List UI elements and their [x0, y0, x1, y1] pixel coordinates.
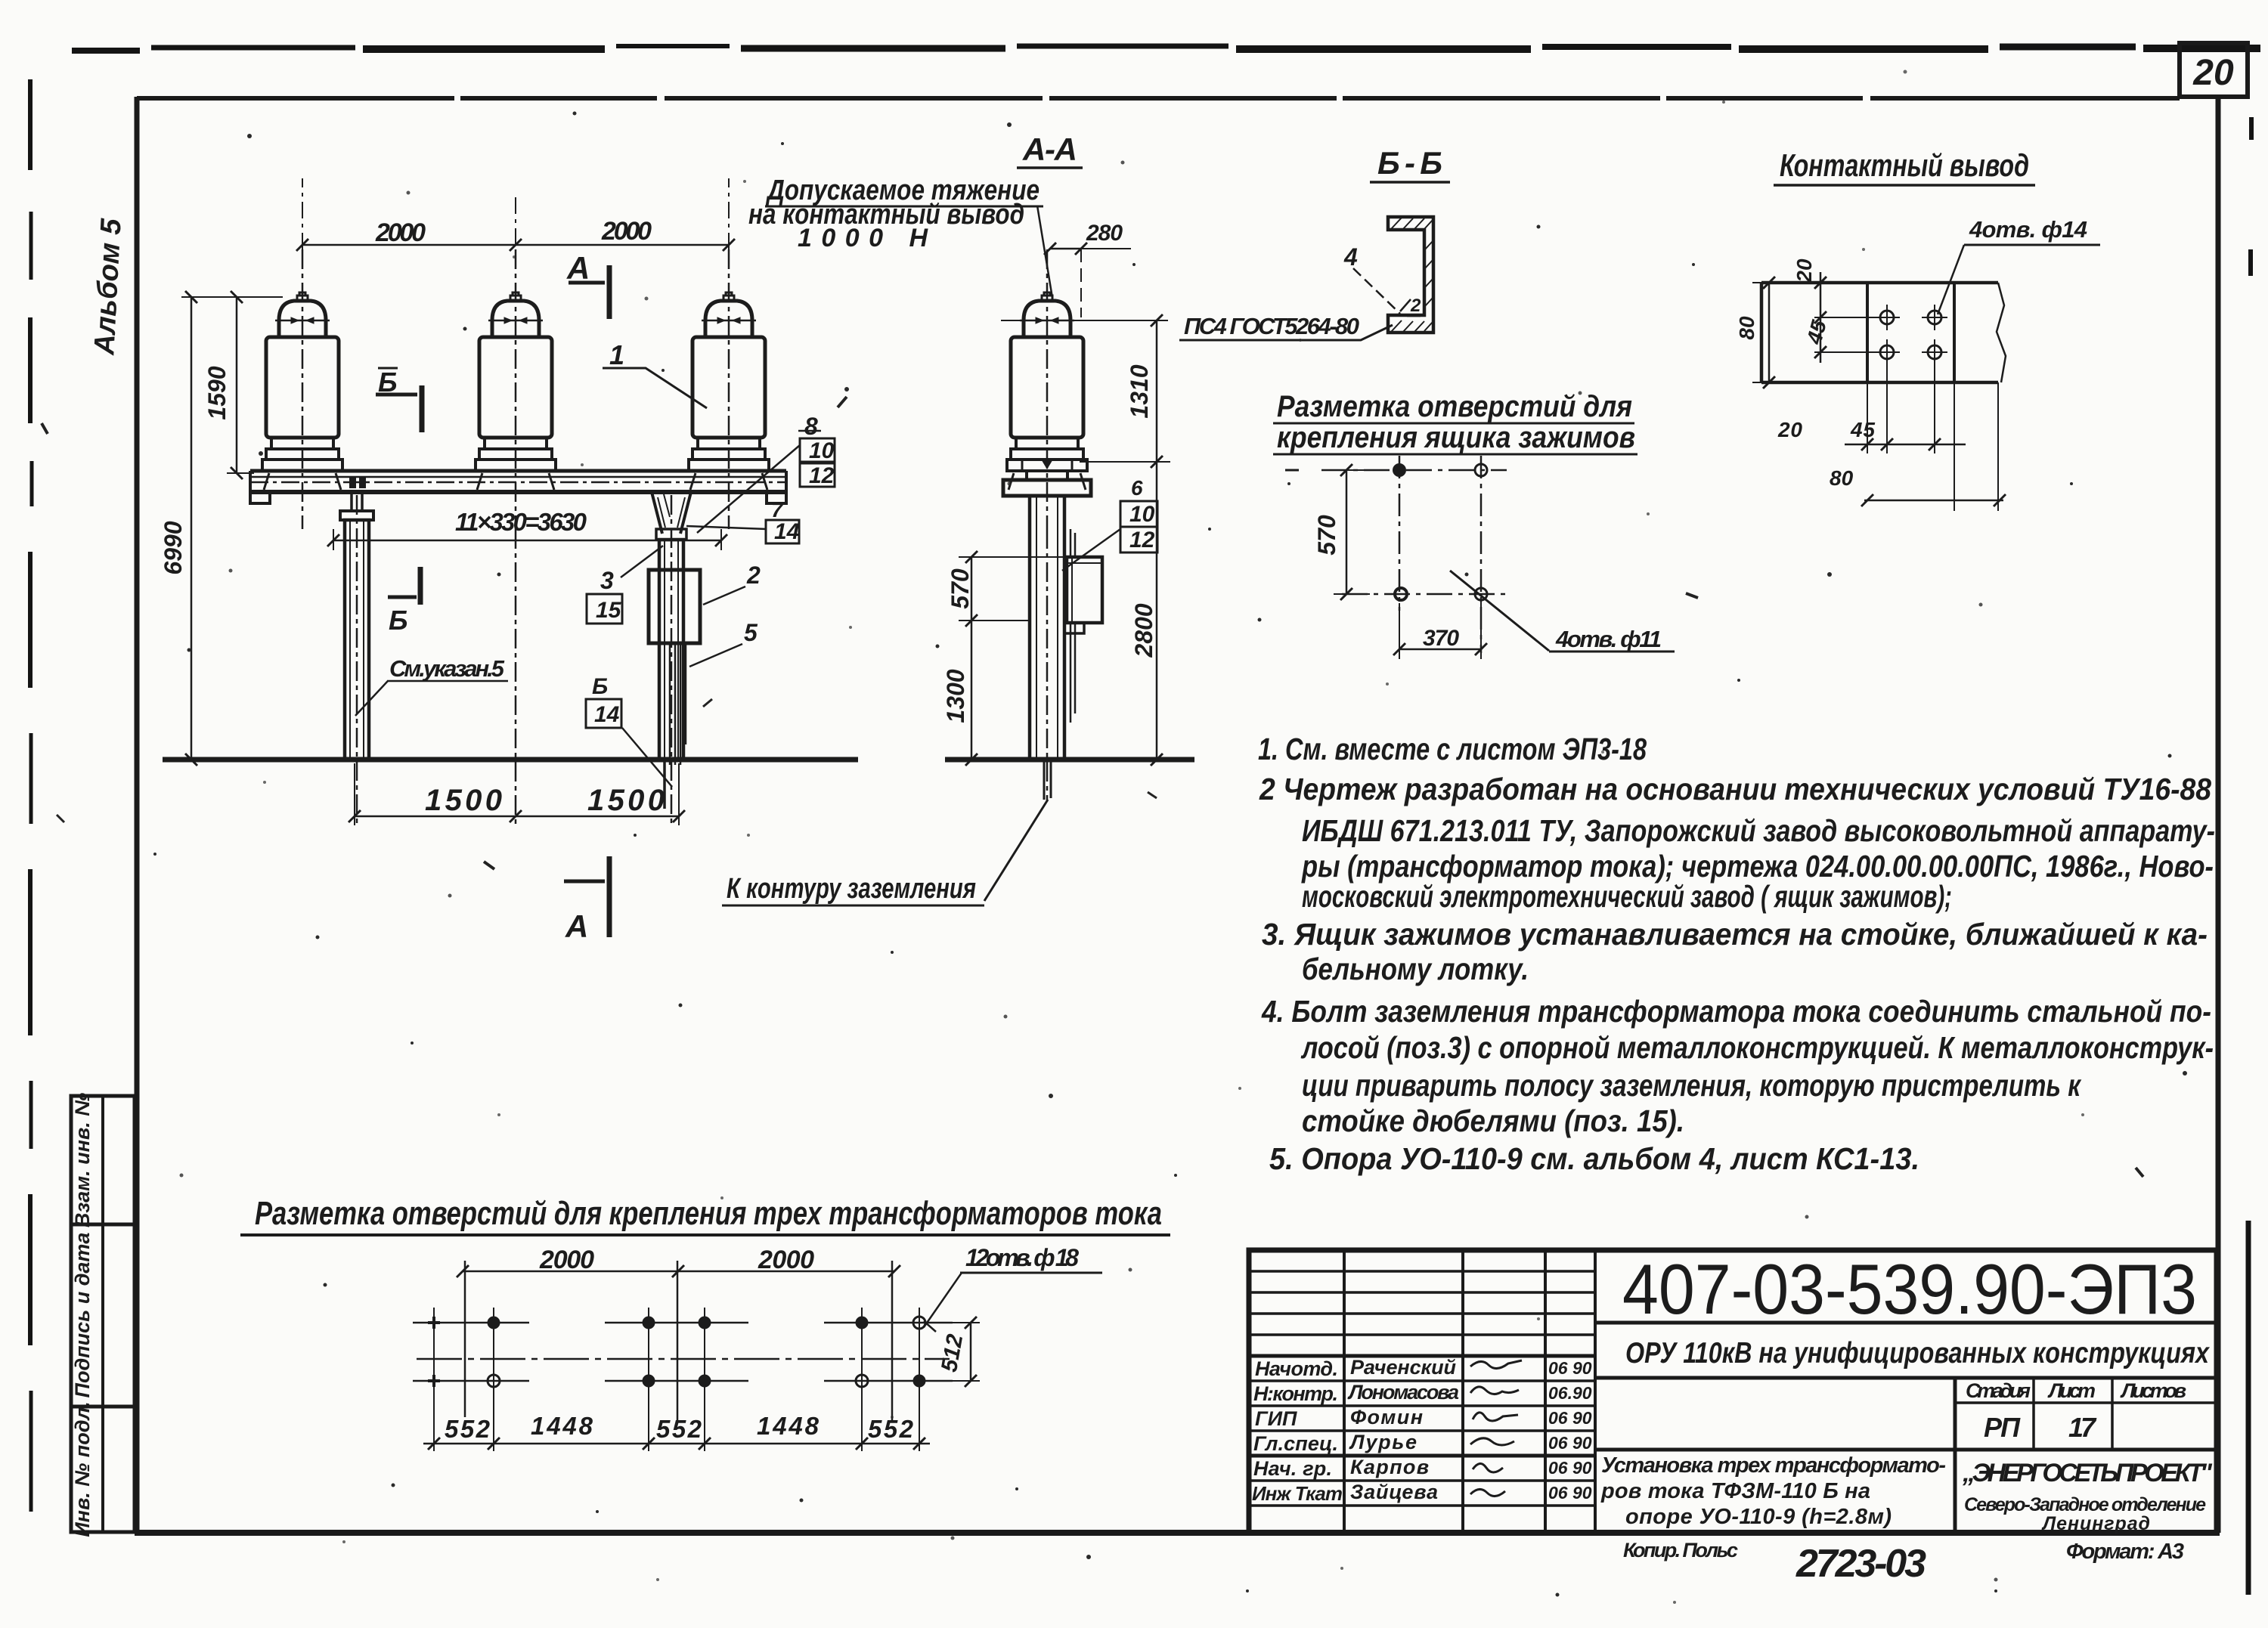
callout 5 leader — [689, 644, 742, 667]
axis verticals — [464, 1261, 466, 1417]
callout 6/10/12 boxes — [1120, 501, 1157, 527]
hole mark bottom left — [1395, 588, 1407, 600]
svg-text:1: 1 — [609, 339, 624, 370]
svg-text:бельному лотку.: бельному лотку. — [1302, 952, 1529, 986]
horizontal axis top — [1321, 469, 1507, 472]
hole row top centerline — [413, 1322, 953, 1324]
holes top row — [428, 1317, 440, 1329]
callout 7/14 leader — [686, 526, 767, 529]
svg-text:10: 10 — [1129, 502, 1155, 527]
bolt hole 2 — [1928, 311, 1941, 324]
current transformer side — [1007, 292, 1087, 490]
transformer side centerline — [1046, 249, 1049, 529]
hole mark bottom right — [1475, 588, 1487, 600]
transformer 3 centerline — [728, 249, 730, 529]
svg-text:московский электротехнический: московский электротехнический завод ( ящ… — [1302, 879, 1952, 914]
svg-text:552: 552 — [656, 1415, 702, 1443]
svg-text:опоре УО-110-9 (h=2.8м): опоре УО-110-9 (h=2.8м) — [1625, 1505, 1892, 1529]
channel profile section — [1388, 217, 1433, 333]
dim level line flange — [1080, 461, 1170, 463]
divider firm/theme — [1954, 1378, 1957, 1533]
svg-text:3: 3 — [600, 567, 614, 594]
svg-text:12: 12 — [809, 463, 835, 488]
dim 570/1300 vertical — [971, 557, 973, 760]
svg-text:2800: 2800 — [1130, 603, 1157, 658]
terminal box side — [1067, 557, 1102, 623]
svg-text:Разметка отверстий для креплен: Разметка отверстий для крепления трех тр… — [255, 1195, 1162, 1232]
support beam — [250, 469, 786, 473]
svg-text:80: 80 — [1830, 466, 1854, 490]
svg-text:ров тока ТФЗМ-110 Б на: ров тока ТФЗМ-110 Б на — [1600, 1479, 1870, 1503]
svg-text:Северо-Западное отделение: Северо-Западное отделение — [1964, 1494, 2206, 1515]
title block outer border — [1249, 1250, 2217, 1533]
svg-text:Копир. Польс: Копир. Польс — [1623, 1539, 1738, 1561]
dim 1500 1500 line — [355, 816, 679, 818]
svg-text:ции приварить полосу заз: ции приварить полосу заземления, которую… — [1302, 1068, 2082, 1103]
svg-text:570: 570 — [1313, 515, 1340, 556]
svg-text:14: 14 — [594, 702, 620, 727]
left sub-table name rows — [1249, 1354, 1595, 1358]
svg-text:А-А: А-А — [1022, 132, 1077, 167]
svg-text:Фомин: Фомин — [1350, 1406, 1423, 1428]
dim line 80 bottom — [1864, 500, 2003, 502]
horizontal centerline — [417, 1358, 950, 1360]
right post centerline — [671, 495, 673, 825]
transformer 2 centerline — [515, 249, 517, 529]
theme row bottom — [1595, 1376, 2217, 1380]
left post centerline — [356, 495, 358, 825]
svg-text:Зайцева: Зайцева — [1350, 1481, 1438, 1503]
signatures — [1470, 1360, 1522, 1369]
svg-text:7: 7 — [771, 498, 784, 522]
svg-text:2 Чертеж разработан на ос: 2 Чертеж разработан на основании техниче… — [1259, 772, 2211, 806]
svg-text:45: 45 — [1850, 418, 1875, 441]
weld label leader — [1179, 325, 1393, 340]
svg-text:Карпов: Карпов — [1350, 1456, 1429, 1478]
dim 20/45 vertical — [1820, 272, 1822, 363]
svg-text:10: 10 — [809, 438, 835, 463]
earthing rod below ground — [663, 760, 666, 809]
current transformer 1 — [262, 292, 342, 490]
svg-text:А: А — [566, 250, 590, 286]
bottom dim line — [423, 1443, 930, 1445]
svg-text:06 90: 06 90 — [1548, 1483, 1592, 1503]
vertical axis left — [1399, 456, 1401, 611]
hole mark top left — [1393, 464, 1405, 476]
hole columns ext lines — [434, 1308, 919, 1451]
left post — [345, 520, 369, 760]
svg-text:20: 20 — [1792, 258, 1816, 283]
vertical axis right — [1480, 456, 1483, 653]
svg-text:2000: 2000 — [539, 1246, 594, 1274]
section A marker top — [569, 281, 605, 285]
right post joint — [656, 529, 686, 540]
dim 570 vertical — [1346, 470, 1348, 594]
svg-text:06 90: 06 90 — [1548, 1458, 1592, 1478]
svg-text:20: 20 — [2192, 53, 2234, 93]
dim 2000+2000 line — [302, 244, 729, 246]
svg-text:Б: Б — [378, 367, 398, 398]
svg-text:570: 570 — [947, 568, 974, 609]
svg-text:20: 20 — [1777, 418, 1802, 441]
leader from tension note to dome — [1037, 206, 1052, 298]
svg-text:370: 370 — [1423, 626, 1459, 651]
see note 5 leader — [355, 681, 388, 716]
svg-text:5. Опора УО-110-9 см. альбо: 5. Опора УО-110-9 см. альбом 4, лист КС1… — [1269, 1141, 1919, 1176]
SIDE VIEW A-A — [945, 249, 1194, 901]
dim line 20 45 bottom — [1845, 444, 1966, 446]
left scan edge — [28, 79, 33, 170]
svg-text:Гл.спец.: Гл.спец. — [1253, 1432, 1338, 1455]
flange bolts — [1022, 460, 1072, 471]
svg-text:Контактный вывод: Контактный вывод — [1780, 147, 2029, 183]
hole mark top right — [1475, 464, 1487, 476]
dim 2000 2000 line — [463, 1271, 894, 1273]
left sub-table top rows — [1249, 1271, 1595, 1335]
svg-text:ИБДШ 671.213.011 ТУ, Запорожск: ИБДШ 671.213.011 ТУ, Запорожский завод в… — [1302, 813, 2215, 848]
svg-text:лосой (поз.3) с опорной мет: лосой (поз.3) с опорной металлоконструкц… — [1300, 1030, 2214, 1065]
hole spec leader — [1938, 245, 1964, 314]
weld mark 2 — [1400, 299, 1421, 316]
callout 2 leader — [703, 587, 745, 605]
svg-text:Начотд.: Начотд. — [1255, 1357, 1338, 1380]
svg-text:11×330=3630: 11×330=3630 — [455, 508, 587, 536]
ground line — [163, 757, 858, 763]
callout B/14 leader — [622, 728, 672, 787]
svg-text:17: 17 — [2068, 1412, 2097, 1443]
beam end plate left — [250, 493, 270, 503]
section B marker lower — [388, 596, 417, 599]
earthing strip pos.5 — [670, 643, 686, 765]
svg-text:Разметка отверстий для: Разметка отверстий для — [1277, 390, 1632, 423]
beam bolts at left post — [349, 478, 356, 488]
dim 80 vertical left — [1768, 283, 1771, 382]
right post funnel gusset — [652, 492, 691, 534]
current transformer 3 — [689, 292, 769, 490]
hole spec leader — [1450, 571, 1549, 651]
svg-text:2: 2 — [1410, 296, 1421, 316]
hole row bottom centerline — [413, 1380, 953, 1382]
top scan edge band — [72, 48, 140, 54]
callout 3/15 leader — [621, 546, 663, 577]
svg-text:552: 552 — [868, 1415, 914, 1443]
transformer 1 centerline — [302, 249, 304, 529]
svg-text:крепления ящика зажимов: крепления ящика зажимов — [1277, 421, 1635, 454]
svg-text:Б-Б: Б-Б — [1377, 145, 1442, 181]
svg-text:Нач. гр.: Нач. гр. — [1253, 1457, 1332, 1480]
svg-text:6990: 6990 — [160, 521, 187, 574]
svg-text:06 90: 06 90 — [1548, 1358, 1592, 1378]
bolt hole 1 — [1880, 311, 1894, 324]
svg-text:407-03-539.90-ЭП3: 407-03-539.90-ЭП3 — [1622, 1249, 2197, 1329]
svg-text:Б: Б — [389, 605, 408, 636]
svg-text:ГИП: ГИП — [1255, 1407, 1297, 1430]
axis dash fragment — [1285, 469, 1299, 472]
post side — [1030, 496, 1064, 760]
svg-text:2000: 2000 — [375, 218, 426, 247]
code cell bottom — [1595, 1321, 2217, 1325]
bolt hole 3 — [1880, 345, 1894, 359]
svg-text:Инв. № подл.: Инв. № подл. — [71, 1401, 94, 1537]
dim 370 bottom — [1399, 602, 1481, 659]
svg-text:14: 14 — [774, 519, 800, 544]
holes bottom row — [428, 1375, 440, 1387]
sheet number box "20" — [2180, 43, 2248, 97]
svg-text:ОРУ 110кВ на унифицированных: ОРУ 110кВ на унифицированных конструкция… — [1625, 1337, 2210, 1370]
svg-text:Установка трех трансформато-: Установка трех трансформато- — [1601, 1453, 1946, 1478]
svg-text:Б: Б — [592, 674, 608, 699]
callout 1 leader — [603, 368, 707, 408]
current transformer 2 — [476, 292, 556, 490]
horizontal axis bottom — [1342, 593, 1505, 596]
right scan edge — [2246, 1221, 2251, 1595]
left sub-table verticals — [1344, 1250, 1595, 1533]
dim 280 — [1050, 248, 1081, 250]
svg-text:Инж Ткат: Инж Ткат — [1252, 1482, 1343, 1505]
svg-text:2: 2 — [746, 562, 761, 589]
svg-text:280: 280 — [1086, 221, 1123, 246]
svg-text:4отв. ф14: 4отв. ф14 — [1969, 216, 2087, 243]
svg-text:552: 552 — [445, 1415, 491, 1443]
ground line side — [945, 757, 1194, 763]
stage row bottom — [1955, 1448, 2217, 1452]
box bracket — [1064, 623, 1084, 633]
section A marker bottom — [564, 880, 605, 884]
svg-text:06 90: 06 90 — [1548, 1408, 1592, 1428]
NOTES — [1258, 732, 2215, 1176]
svg-text:А: А — [565, 908, 588, 944]
earthing strip side — [1064, 529, 1075, 557]
callout 4 leader — [1353, 268, 1400, 314]
BOX HOLES DETAIL — [1273, 390, 1675, 659]
dim level line top — [1001, 320, 1168, 321]
svg-text:Взам. инв. №: Взам. инв. № — [71, 1093, 94, 1227]
svg-text:Стадия: Стадия — [1966, 1379, 2031, 1402]
svg-text:2000: 2000 — [601, 217, 652, 246]
svg-text:12: 12 — [1129, 528, 1155, 552]
svg-text:4отв. ф11: 4отв. ф11 — [1555, 626, 1662, 652]
bottom ext lines — [1867, 359, 1935, 453]
BOTTOM LEFT HOLES DETAIL — [240, 1195, 1170, 1451]
svg-text:Лономасова: Лономасова — [1347, 1381, 1459, 1404]
svg-text:1. См. вместе с листом ЭП3: 1. См. вместе с листом ЭП3-18 — [1258, 732, 1647, 766]
svg-text:5: 5 — [744, 619, 758, 646]
left margin boxes — [71, 1096, 135, 1224]
svg-text:8: 8 — [804, 413, 818, 440]
svg-text:Н:контр.: Н:контр. — [1253, 1382, 1338, 1405]
plate break edge — [1997, 283, 2006, 382]
svg-text:Подпись и дата: Подпись и дата — [71, 1233, 94, 1398]
base plate — [1003, 480, 1091, 496]
svg-text:80: 80 — [1735, 316, 1758, 340]
svg-text:Лурье: Лурье — [1349, 1431, 1417, 1453]
dim 512 vertical — [970, 1323, 972, 1381]
svg-text:06 90: 06 90 — [1548, 1433, 1592, 1453]
svg-text:1310: 1310 — [1126, 364, 1153, 418]
hole spec leader — [924, 1273, 962, 1327]
svg-text:Лист: Лист — [2047, 1379, 2096, 1402]
TITLE BLOCK — [1249, 1249, 2217, 1586]
svg-text:1590: 1590 — [203, 366, 231, 419]
channel hatching — [1391, 218, 1433, 230]
svg-text:2723-03: 2723-03 — [1795, 1542, 1931, 1586]
svg-text:ПС4 ГОСТ5264-80: ПС4 ГОСТ5264-80 — [1184, 313, 1359, 339]
SECTION B-B DETAIL — [1179, 145, 1450, 340]
svg-text:6: 6 — [1131, 476, 1143, 500]
main drawing frame — [137, 96, 2180, 101]
svg-text:См.указан.5: См.указан.5 — [389, 655, 505, 682]
CONTACT TERMINAL DETAIL — [1735, 147, 2100, 511]
svg-text:К контуру заземления: К контуру заземления — [727, 873, 976, 905]
terminal plate — [1761, 283, 1998, 382]
svg-text:Формат: А3: Формат: А3 — [2066, 1540, 2184, 1564]
dim 1590 + 6990 vertical lines — [236, 297, 238, 473]
left post cap — [352, 492, 362, 511]
svg-text:06.90: 06.90 — [1548, 1383, 1592, 1403]
svg-text:12отв. ф 18: 12отв. ф 18 — [965, 1244, 1079, 1271]
section B marker upper — [376, 393, 417, 397]
contact pad edges — [1867, 283, 1954, 382]
post centerline — [1046, 529, 1049, 801]
svg-text:1300: 1300 — [942, 669, 969, 723]
earthing conductor below ground — [1044, 760, 1051, 800]
left dim ext lines — [1752, 283, 1867, 382]
earthing conductor diagonal — [984, 800, 1048, 901]
svg-text:стойке дюбелями (поз. 15).: стойке дюбелями (поз. 15). — [1302, 1103, 1684, 1138]
svg-text:„ЭНЕРГОСЕТЬПРОЕКТ": „ЭНЕРГОСЕТЬПРОЕКТ" — [1962, 1459, 2213, 1487]
svg-text:2000: 2000 — [758, 1246, 814, 1274]
svg-text:4. Болт заземления трансфор: 4. Болт заземления трансформатора тока с… — [1261, 994, 2211, 1029]
svg-text:4: 4 — [1343, 243, 1358, 271]
right post — [659, 540, 683, 760]
svg-text:Листов: Листов — [2120, 1379, 2186, 1402]
dim 1310/2800 vertical — [1156, 320, 1158, 760]
beam end plate right — [767, 493, 786, 503]
terminal box pos.2 — [649, 570, 700, 643]
callout 8/10/12 leader — [697, 445, 800, 533]
svg-text:Раченский: Раченский — [1350, 1356, 1457, 1379]
svg-text:РП: РП — [1984, 1412, 2021, 1443]
svg-text:на контактный вывод: на контактный вывод — [748, 199, 1024, 231]
svg-text:15: 15 — [596, 598, 622, 623]
seat plate — [1027, 471, 1067, 480]
svg-text:Ленинград: Ленинград — [2041, 1513, 2150, 1534]
svg-text:3. Ящик зажимов устанавлива: 3. Ящик зажимов устанавливается на стойк… — [1262, 917, 2208, 952]
stage header row — [1955, 1401, 2217, 1404]
bolt hole 4 — [1928, 345, 1941, 359]
dim 11x330=3630 line — [333, 540, 721, 542]
